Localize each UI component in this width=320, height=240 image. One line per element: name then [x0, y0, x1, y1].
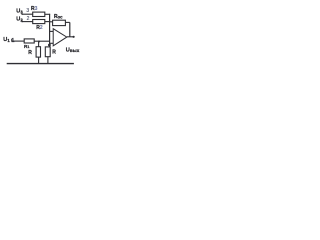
wire U1 to R1 — [12, 40, 25, 42]
wire non-inverting input stub — [50, 42, 54, 44]
node U1 terminal tick — [11, 39, 13, 42]
wire left shunt stub down — [38, 41, 40, 47]
node U3 terminal tick — [21, 12, 23, 15]
wire R3 to node — [45, 13, 50, 15]
svg-text:Uвых: Uвых — [66, 47, 80, 53]
ground rail — [7, 63, 74, 65]
wire node to Roc — [50, 21, 53, 23]
svg-text:R2: R2 — [36, 25, 43, 31]
svg-text:U2: U2 — [16, 17, 23, 23]
resistor R2 — [33, 20, 45, 24]
svg-text:R3: R3 — [31, 6, 38, 12]
node U2 terminal tick — [21, 20, 23, 23]
node summing junction dot — [48, 44, 51, 47]
svg-text:U3: U3 — [16, 9, 23, 15]
wire op-amp output — [67, 36, 74, 38]
wire U2 to R2 — [22, 21, 33, 23]
node output terminal dot — [73, 36, 75, 38]
resistor Roc — [53, 20, 66, 25]
svg-text:R: R — [28, 50, 32, 56]
wire R1 to node — [34, 40, 49, 42]
wire feedback vertical — [69, 22, 71, 36]
resistor R left shunt — [36, 47, 40, 57]
wire left shunt to rail — [38, 57, 40, 63]
wire summing vertical — [49, 14, 51, 47]
wire R2 to node — [45, 21, 50, 23]
wire right shunt to rail — [47, 57, 49, 64]
wire U3 to R3 — [22, 13, 33, 15]
wire Roc right — [65, 21, 69, 23]
svg-text:2: 2 — [27, 16, 30, 22]
svg-text:Rос: Rос — [54, 14, 63, 20]
svg-text:R: R — [52, 50, 56, 56]
svg-text:3: 3 — [26, 8, 29, 14]
op-amp U1 triangle — [53, 29, 67, 46]
svg-text:R1: R1 — [24, 44, 29, 50]
resistor R1 — [24, 39, 34, 43]
svg-text:U1: U1 — [3, 37, 10, 43]
node R1 junction dot — [38, 41, 40, 43]
resistor R3 — [33, 12, 45, 16]
svg-text:1: 1 — [11, 38, 14, 44]
resistor R right shunt — [45, 47, 50, 57]
wire inverting input stub — [50, 30, 54, 32]
